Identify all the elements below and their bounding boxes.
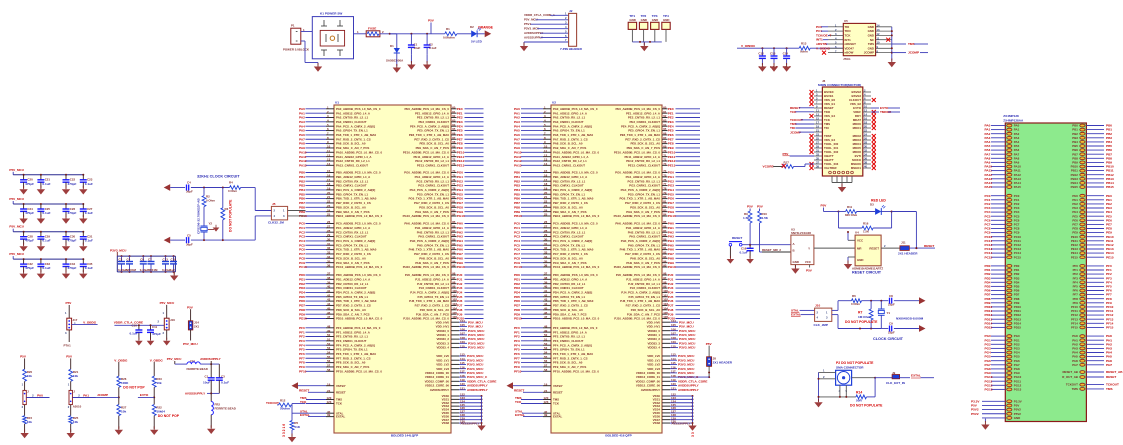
- wire bus PD0-PD10 (U2 left): [514, 272, 600, 321]
- svg-text:12: 12: [877, 32, 880, 36]
- LED D3 red: [870, 199, 892, 215]
- svg-text:NPX1M: NPX1M: [148, 268, 159, 272]
- svg-text:C13: C13: [163, 258, 169, 262]
- svg-text:RESET: RESET: [514, 388, 524, 392]
- svg-text:P5V: P5V: [757, 205, 764, 209]
- ground (R5): [291, 434, 293, 438]
- svg-text:V_OBDIO: V_OBDIO: [816, 46, 831, 50]
- switch RESET_SW: [729, 236, 742, 258]
- svg-text:V_OBDG: V_OBDG: [150, 358, 164, 362]
- svg-text:J10: J10: [815, 304, 820, 308]
- capacitor bank P3V3_MCU (C3-C19): [110, 249, 177, 273]
- crystal Y1: [878, 301, 890, 329]
- svg-text:DO NOT POPULATE: DO NOT POPULATE: [850, 403, 883, 407]
- jumper J10 body: [814, 304, 832, 327]
- wire J11 to RESET: [909, 247, 935, 249]
- svg-text:JTAG: JTAG: [843, 57, 851, 61]
- svg-text:PD15: PD15: [1014, 326, 1022, 330]
- wire bus PJ0-PJ10 (U1 right): [403, 272, 483, 321]
- wire D1 node: [390, 33, 397, 35]
- svg-text:VCC: VCC: [857, 239, 864, 243]
- svg-text:0.1uF: 0.1uF: [740, 250, 748, 254]
- svg-text:73: 73: [663, 162, 667, 166]
- svg-text:VSTBY: VSTBY: [553, 384, 563, 388]
- wire bus PE0-PE13 (U1 right): [403, 105, 484, 167]
- capacitor C14: [783, 48, 792, 69]
- jumper J9: [875, 371, 906, 385]
- wire P2 center to node: [852, 377, 877, 379]
- connector J2 rows: [524, 12, 569, 45]
- svg-text:470pF: 470pF: [68, 266, 77, 270]
- svg-text:PC10_ABD0B_PCS_L0_MA_CS_0: PC10_ABD0B_PCS_L0_MA_CS_0: [553, 265, 600, 269]
- connector P2 body: [836, 370, 852, 385]
- net TMS (U2): [515, 396, 559, 402]
- capacitor C12: [758, 48, 766, 69]
- net TMS (U5): [892, 42, 928, 46]
- svg-text:36pF: 36pF: [186, 190, 193, 194]
- svg-text:R13: R13: [801, 42, 807, 46]
- svg-text:0 Ohm: 0 Ohm: [851, 302, 860, 306]
- svg-text:C9: C9: [889, 322, 893, 326]
- svg-text:R17: R17: [784, 161, 790, 165]
- svg-text:10k: 10k: [27, 420, 32, 424]
- ground (RESET_SW): [729, 256, 731, 259]
- svg-text:14: 14: [327, 162, 331, 166]
- svg-text:P3V3_MCU: P3V3_MCU: [468, 346, 485, 350]
- svg-text:10uF: 10uF: [203, 380, 210, 384]
- svg-text:GND: GND: [793, 260, 799, 264]
- capacitor C2: [424, 34, 437, 55]
- svg-text:PG10_ABD0B_PCS_L0_MA_CS_0: PG10_ABD0B_PCS_L0_MA_CS_0: [403, 214, 450, 218]
- svg-text:13: 13: [877, 28, 880, 32]
- svg-text:16: 16: [864, 117, 867, 121]
- wire bus PH0-PH10 (U1 right): [403, 220, 484, 269]
- svg-text:84: 84: [452, 213, 456, 217]
- svg-text:P5V1: P5V1: [524, 22, 531, 26]
- wire U4 GND: [848, 257, 855, 263]
- svg-text:BOLDED 144LQFP: BOLDED 144LQFP: [391, 434, 418, 438]
- capacitor C5 (32k): [186, 233, 193, 246]
- wire XTAL link (U1): [292, 412, 307, 414]
- svg-text:MDO1: MDO1: [853, 126, 862, 130]
- svg-text:R12: R12: [280, 399, 286, 403]
- capacitor C3a (avdd): [216, 364, 229, 393]
- net EXTAL (U1): [300, 413, 345, 419]
- svg-text:2X1 HEADER: 2X1 HEADER: [898, 252, 918, 256]
- wire K1 to fuse: [354, 30, 367, 34]
- svg-text:470pF: 470pF: [25, 182, 34, 186]
- svg-text:P5V_MCU: P5V_MCU: [9, 252, 24, 256]
- shield pins (J6): [832, 176, 852, 186]
- capacitor bank P5V_MCU row 2 (C24/C25/C26/C27): [9, 197, 93, 224]
- ground (U2 VSS bus): [692, 422, 694, 426]
- wire 32k top: [191, 187, 230, 189]
- net RESET (U2): [514, 388, 563, 394]
- svg-text:EXTAL: EXTAL: [911, 374, 921, 378]
- svg-text:10uF: 10uF: [414, 46, 421, 50]
- resistor R3 vertical (32k): [221, 188, 229, 241]
- svg-text:DO NOT POP: DO NOT POP: [158, 414, 180, 418]
- svg-text:PA13: PA13: [299, 163, 307, 167]
- svg-text:PA15: PA15: [985, 185, 993, 189]
- svg-text:VDDR_CTLA_CORE: VDDR_CTLA_CORE: [114, 321, 143, 325]
- svg-text:PC10_ABD0B_PCS_L0_MA_CS_0: PC10_ABD0B_PCS_L0_MA_CS_0: [336, 265, 383, 269]
- wire P2 pin2: [819, 375, 836, 379]
- resistor R10 pullup: [757, 205, 769, 253]
- svg-text:P5V_MCU: P5V_MCU: [183, 342, 198, 346]
- ferrite bead FR2: [211, 393, 236, 427]
- svg-text:18: 18: [864, 121, 867, 125]
- ground (FR2): [210, 425, 212, 429]
- svg-text:PF10_ABD0B_PCS_L0_MA_CS_0: PF10_ABD0B_PCS_L0_MA_CS_0: [553, 369, 599, 373]
- svg-text:PF10: PF10: [299, 369, 307, 373]
- wire bus PF0-PF15 (P3 right): [1071, 264, 1114, 330]
- svg-text:R4: R4: [229, 181, 233, 185]
- svg-text:AVSSSUPPLY: AVSSSUPPLY: [461, 421, 480, 425]
- wire J10 to bottom rail: [832, 315, 882, 330]
- net labels (J6 left): [790, 106, 814, 134]
- net XTAL (U1): [300, 410, 344, 416]
- svg-text:470pF: 470pF: [25, 211, 34, 215]
- svg-text:R11: R11: [847, 205, 853, 209]
- svg-text:C1: C1: [205, 374, 209, 378]
- resistor R6 (0 Ohm): [851, 294, 888, 306]
- svg-text:PD10_ABD0B_PCS_L0_MA_CS_0: PD10_ABD0B_PCS_L0_MA_CS_0: [553, 317, 600, 321]
- svg-text:35: 35: [816, 157, 819, 161]
- svg-text:121: 121: [671, 386, 676, 390]
- power pins VDD (U1 right): [436, 319, 485, 350]
- resistor R11: [839, 205, 876, 217]
- wire J9 to EXTAL: [900, 374, 934, 379]
- svg-text:C12: C12: [758, 52, 764, 56]
- ground (C10): [138, 338, 140, 341]
- svg-text:GND: GND: [652, 18, 658, 22]
- svg-text:22: 22: [864, 129, 867, 133]
- svg-text:0ohm: 0ohm: [800, 50, 808, 54]
- svg-text:PB10_ABD0B_PCS_L0_MA_CS_0: PB10_ABD0B_PCS_L0_MA_CS_0: [336, 214, 383, 218]
- wire bus PC0-PC10 (U2 left): [514, 220, 600, 269]
- svg-text:PH10: PH10: [668, 265, 676, 269]
- svg-text:PTA1: PTA1: [64, 344, 72, 348]
- svg-text:0.1uF: 0.1uF: [85, 266, 93, 270]
- svg-text:R1: R1: [446, 27, 450, 31]
- svg-text:14: 14: [544, 162, 548, 166]
- pullup column R20/R15 (2_PA0): [20, 355, 49, 439]
- svg-text:Y2: Y2: [209, 222, 213, 226]
- wire P1 to K1: [301, 28, 318, 63]
- net VSTBY arrow (U2): [507, 382, 563, 389]
- svg-text:47: 47: [544, 315, 548, 319]
- socket P3 part labels: [1003, 114, 1024, 122]
- net RESET (U1): [299, 388, 346, 394]
- svg-text:0.1uF: 0.1uF: [429, 46, 437, 50]
- svg-text:25: 25: [327, 213, 331, 217]
- svg-text:PE15: PE15: [1106, 255, 1114, 259]
- ground (J2): [523, 43, 525, 47]
- net P5V_MCU (avdd): [167, 357, 187, 364]
- connector J2 body: [560, 9, 583, 51]
- ground (C16): [749, 256, 751, 259]
- wire U3 Y to U4 MR: [814, 247, 855, 249]
- svg-text:VSTBY: VSTBY: [336, 384, 346, 388]
- svg-text:D2: D2: [470, 25, 474, 29]
- capacitor bank P5V_MCU row 4 (C32/C33/C34/C35): [9, 252, 93, 279]
- power pins P3 bottom: [971, 399, 1022, 420]
- net TCK (U1): [300, 400, 343, 405]
- svg-text:PG10: PG10: [668, 214, 676, 218]
- nets RESET_AB/TCKOUT/TMS (P3 right): [1062, 370, 1123, 391]
- ground (C2): [423, 55, 431, 70]
- svg-text:P3V3_MCU: P3V3_MCU: [679, 346, 696, 350]
- svg-text:AVDDSUPPLY: AVDDSUPPLY: [678, 388, 700, 392]
- jumper column J13 (V_OBDG): [64, 301, 98, 347]
- resistor R7 (1M): [858, 301, 873, 329]
- ferrite bead FR1: [187, 360, 220, 371]
- net labels (J6 right): [871, 106, 900, 114]
- svg-text:C4: C4: [127, 258, 131, 262]
- svg-text:ZX4MP128AA: ZX4MP128AA: [1003, 119, 1024, 123]
- svg-text:23: 23: [816, 133, 819, 137]
- svg-text:5V LED: 5V LED: [471, 39, 483, 43]
- svg-text:PC15: PC15: [1014, 255, 1022, 259]
- capacitor C9: [881, 322, 919, 335]
- svg-text:PD15: PD15: [985, 326, 993, 330]
- ground (J6): [841, 184, 843, 188]
- svg-text:0.1uF: 0.1uF: [85, 211, 93, 215]
- net arrow P5V out: [485, 30, 492, 37]
- svg-text:TCK: TCK: [553, 402, 560, 406]
- svg-text:U5: U5: [844, 19, 848, 23]
- svg-text:SMA CONNECTOR: SMA CONNECTOR: [836, 366, 864, 370]
- jumper column J16 (P5V_MCU): [160, 301, 176, 340]
- svg-text:VDD33_4: VDD33_4: [647, 346, 660, 350]
- svg-text:7-PIN HEADER: 7-PIN HEADER: [560, 47, 583, 51]
- svg-text:P5V: P5V: [806, 269, 813, 273]
- wire P2 pin1: [819, 369, 836, 373]
- LED D2: [470, 25, 483, 43]
- wire GND to ground (P3): [984, 419, 986, 422]
- net TCKOUT (U1): [266, 401, 279, 405]
- svg-text:nBOW: nBOW: [845, 51, 854, 55]
- svg-text:P5V: P5V: [821, 204, 828, 208]
- svg-text:RESET_AB: RESET_AB: [1062, 370, 1077, 374]
- svg-text:PE13: PE13: [668, 163, 676, 167]
- wire R4 to J5: [241, 188, 272, 211]
- wire J10 to top rail: [832, 301, 852, 311]
- svg-text:22pF: 22pF: [888, 303, 895, 307]
- capacitor C16 (reset): [740, 244, 754, 258]
- svg-text:36: 36: [327, 264, 331, 268]
- svg-text:P5V: P5V: [747, 205, 754, 209]
- wire 32k top left: [170, 187, 185, 189]
- svg-text:PG13: PG13: [985, 388, 993, 392]
- wire bus PA0-PA15 (P3 left): [985, 124, 1022, 190]
- connector P1 body: [291, 28, 301, 44]
- ground (Y2 case): [208, 225, 219, 232]
- svg-text:95: 95: [452, 264, 456, 268]
- svg-text:V_OBDG: V_OBDG: [83, 320, 97, 324]
- svg-text:AVDDSUPPLY: AVDDSUPPLY: [430, 388, 449, 392]
- svg-text:PH10: PH10: [457, 265, 465, 269]
- IC U5 pin rows: [816, 24, 892, 55]
- wire U3 VCC to P5V: [806, 265, 813, 273]
- svg-text:21: 21: [816, 129, 819, 133]
- svg-text:DO NOT POP: DO NOT POP: [123, 385, 145, 389]
- svg-text:C6: C6: [140, 258, 144, 262]
- svg-text:10k: 10k: [121, 409, 126, 413]
- svg-text:C11: C11: [152, 325, 158, 329]
- resistor R16: [839, 211, 893, 234]
- wire bus PB0-PB10 (U1 left): [299, 169, 383, 218]
- svg-text:33: 33: [816, 153, 819, 157]
- svg-text:CLK32_JM: CLK32_JM: [268, 220, 284, 224]
- svg-text:VSS8: VSS8: [442, 421, 450, 425]
- net V_OBDIO: [737, 44, 799, 49]
- svg-text:VCORE: VCORE: [763, 165, 774, 169]
- svg-text:C13: C13: [770, 52, 776, 56]
- svg-text:C19: C19: [171, 258, 177, 262]
- svg-text:PB10_ABD0B_PCS_L0_MA_CS_0: PB10_ABD0B_PCS_L0_MA_CS_0: [553, 214, 600, 218]
- svg-text:VSS8: VSS8: [653, 421, 661, 425]
- svg-text:RESET: RESET: [553, 390, 563, 394]
- svg-text:36: 36: [864, 157, 867, 161]
- svg-text:123: 123: [544, 400, 549, 404]
- jumper column J14 (P5V): [183, 305, 200, 346]
- svg-text:EXTAL: EXTAL: [336, 415, 345, 419]
- svg-text:0.1uF: 0.1uF: [42, 211, 50, 215]
- svg-text:AVDDSUPPLY: AVDDSUPPLY: [641, 388, 660, 392]
- svg-text:0.1uF: 0.1uF: [85, 239, 93, 243]
- svg-text:PF15: PF15: [1071, 326, 1078, 330]
- svg-text:39: 39: [327, 413, 331, 417]
- wire bus PH0-PH8 (P3 right): [1072, 334, 1112, 367]
- svg-text:32KHz CLOCK CIRCUIT: 32KHz CLOCK CIRCUIT: [197, 175, 240, 179]
- power pins VDD (U2 right): [647, 319, 696, 350]
- svg-text:PA1: PA1: [83, 394, 89, 398]
- svg-text:VDD33_4: VDD33_4: [436, 346, 449, 350]
- svg-text:PD10: PD10: [514, 317, 522, 321]
- svg-text:P5V_MCU: P5V_MCU: [160, 301, 175, 305]
- power pins VDD12 (U1 right): [425, 353, 497, 392]
- ground (U5): [891, 59, 893, 63]
- svg-text:PH7: PH7: [1106, 363, 1112, 367]
- svg-text:TCK: TCK: [336, 402, 343, 406]
- svg-text:GND: GND: [629, 18, 635, 22]
- svg-text:36pF: 36pF: [186, 242, 193, 246]
- svg-text:PC10: PC10: [299, 265, 307, 269]
- ground bus VSS (U2 right): [653, 393, 694, 426]
- svg-text:P5V: P5V: [187, 305, 194, 309]
- net arrow 32K bottom: [164, 237, 171, 244]
- IC U5 body: [843, 19, 876, 61]
- svg-text:1.5K: 1.5K: [743, 216, 750, 220]
- svg-text:3 3 2 1 6: 3 3 2 1 6: [282, 424, 286, 437]
- svg-text:PE13: PE13: [457, 163, 465, 167]
- svg-text:58: 58: [327, 368, 331, 372]
- svg-text:PB10: PB10: [514, 214, 522, 218]
- svg-text:AVDDSUPPLY: AVDDSUPPLY: [467, 388, 489, 392]
- svg-text:K1 POWER SW: K1 POWER SW: [320, 12, 342, 16]
- svg-text:24: 24: [544, 389, 548, 393]
- svg-text:34: 34: [864, 153, 867, 157]
- svg-text:73: 73: [452, 162, 456, 166]
- net TCK (U2): [515, 400, 560, 405]
- resistor R1: [443, 27, 471, 40]
- ground (C13): [773, 63, 775, 67]
- svg-text:PE13_CNRX1_CLKOUT: PE13_CNRX1_CLKOUT: [417, 163, 449, 167]
- crystal Y2: [201, 222, 213, 241]
- svg-text:0 Ohm: 0 Ohm: [206, 198, 215, 202]
- svg-text:R6: R6: [852, 294, 856, 298]
- svg-text:PG10: PG10: [457, 214, 465, 218]
- ground (D1): [393, 58, 401, 73]
- svg-text:PD10_ABD0B_PCS_L0_MA_CS_0: PD10_ABD0B_PCS_L0_MA_CS_0: [336, 317, 383, 321]
- svg-text:B: B: [793, 249, 795, 253]
- svg-text:C8: C8: [889, 294, 893, 298]
- net XTAL (U2): [515, 410, 561, 416]
- ground (U1 VSS bus): [481, 422, 483, 426]
- net arrow 32K top: [164, 184, 171, 191]
- ground (U3): [794, 265, 796, 269]
- wire bus PG0-PG10 (U1 right): [403, 169, 484, 218]
- svg-text:26: 26: [864, 137, 867, 141]
- svg-text:820 Ohm: 820 Ohm: [845, 213, 858, 217]
- svg-text:1.5K: 1.5K: [863, 230, 870, 234]
- connector J6 pin rows: [814, 89, 871, 171]
- svg-text:P5V_MCU: P5V_MCU: [9, 225, 24, 229]
- wire reset sw to gate: [742, 244, 791, 246]
- svg-text:AVSSSUPPLY: AVSSSUPPLY: [185, 391, 206, 395]
- svg-text:U1: U1: [335, 101, 339, 105]
- wire U3 GND: [794, 265, 796, 268]
- svg-text:EXTAL: EXTAL: [791, 313, 801, 317]
- svg-text:38: 38: [864, 161, 867, 165]
- wire bus PH0-PH10 (U2 right): [614, 220, 700, 269]
- svg-text:P5V: P5V: [428, 19, 435, 23]
- svg-text:GND: GND: [641, 18, 647, 22]
- svg-text:J16: J16: [170, 318, 175, 322]
- svg-text:27: 27: [816, 141, 819, 145]
- svg-text:P5V_MCU: P5V_MCU: [167, 357, 182, 361]
- svg-text:25: 25: [816, 137, 819, 141]
- svg-text:D1: D1: [390, 44, 394, 48]
- net EXTAL (clk): [791, 313, 815, 317]
- jumper J11: [898, 240, 918, 255]
- wire bus PF0-PF10 (U2 left): [514, 324, 599, 373]
- fuse F1 body: [366, 27, 380, 37]
- svg-text:470pF: 470pF: [68, 182, 77, 186]
- svg-text:RESET: RESET: [1106, 375, 1116, 379]
- svg-text:P5V: P5V: [66, 355, 73, 359]
- svg-text:R14: R14: [856, 391, 862, 395]
- svg-text:P1: P1: [291, 24, 295, 28]
- ground (J16): [166, 338, 168, 341]
- svg-text:VCC: VCC: [805, 260, 812, 264]
- svg-text:20: 20: [864, 125, 867, 129]
- net P5V tag: [428, 19, 435, 34]
- svg-text:470pF: 470pF: [25, 239, 34, 243]
- wire bus PG0-PG10 (U2 right): [614, 169, 700, 218]
- svg-text:PA15: PA15: [1014, 185, 1021, 189]
- wire bus PJ0-PJ10 (U2 right): [614, 272, 700, 321]
- test points TP1-TP4: [628, 14, 670, 43]
- ground (C11): [150, 338, 152, 341]
- svg-text:TCKOUT: TCKOUT: [266, 401, 279, 405]
- svg-text:121: 121: [460, 386, 465, 390]
- net EXTAL (U2): [515, 413, 562, 419]
- svg-text:C7: C7: [148, 258, 152, 262]
- svg-text:0.1uF: 0.1uF: [85, 182, 93, 186]
